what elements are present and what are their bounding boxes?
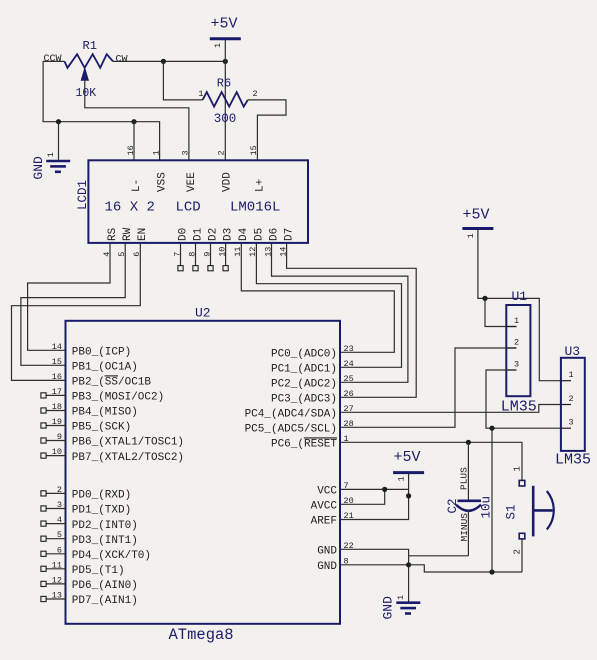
U2 pin VCC (7) bbox=[317, 481, 348, 498]
svg-text:PC3_(ADC3): PC3_(ADC3) bbox=[271, 394, 337, 406]
LCD1 top pin names bbox=[131, 172, 266, 192]
wire +5V to U1 pin1 bbox=[485, 298, 517, 326]
U2 pin PC6_(RESET (1) bbox=[271, 434, 349, 451]
svg-text:2: 2 bbox=[253, 89, 258, 99]
wire gnd right vertical bbox=[491, 428, 493, 572]
wire gnd to S1 bottom bbox=[409, 565, 522, 572]
svg-text:1: 1 bbox=[514, 316, 519, 326]
U2 pin PD0_(RXD) (2) bbox=[41, 485, 131, 502]
svg-text:PD7_(AIN1): PD7_(AIN1) bbox=[72, 595, 138, 607]
wire gnd to C2 minus bbox=[409, 555, 469, 557]
svg-text:U3: U3 bbox=[565, 344, 581, 359]
svg-text:PB2_(SS/OC1B: PB2_(SS/OC1B bbox=[72, 377, 152, 389]
wire EN to PB2 bbox=[12, 243, 141, 381]
svg-text:PB7_(XTAL2/TOSC2): PB7_(XTAL2/TOSC2) bbox=[72, 452, 184, 464]
svg-text:U2: U2 bbox=[195, 306, 211, 321]
svg-text:2: 2 bbox=[216, 150, 226, 155]
svg-text:PC1_(ADC1): PC1_(ADC1) bbox=[271, 364, 337, 376]
wire VCC to +5V bbox=[340, 488, 409, 490]
unconnected stub D2 bbox=[208, 243, 213, 271]
svg-text:LM35: LM35 bbox=[501, 399, 537, 416]
wire D5 to PC1 bbox=[256, 243, 401, 367]
wire AREF to +5V stem bbox=[340, 473, 409, 520]
svg-text:PC6_(RESET: PC6_(RESET bbox=[271, 439, 337, 451]
U2 pin PB2_(SS/OC1B (16) bbox=[52, 372, 152, 389]
svg-text:3: 3 bbox=[569, 418, 574, 428]
svg-text:PB3_(MOSI/OC2): PB3_(MOSI/OC2) bbox=[72, 392, 164, 404]
U2 pin PC2_(ADC2) (25) bbox=[271, 374, 354, 391]
potentiometer R1 bbox=[65, 39, 114, 100]
wire D4 to PC0 bbox=[241, 243, 394, 352]
U2 pin PC0_(ADC0) (23) bbox=[271, 344, 354, 361]
svg-text:PD0_(RXD): PD0_(RXD) bbox=[72, 490, 131, 502]
wire U1 pin3 gnd net bbox=[486, 370, 561, 428]
svg-text:EN: EN bbox=[137, 228, 149, 241]
svg-text:1: 1 bbox=[397, 476, 407, 481]
svg-text:AVCC: AVCC bbox=[311, 501, 338, 513]
svg-text:U1: U1 bbox=[512, 289, 528, 304]
svg-text:1: 1 bbox=[569, 370, 574, 380]
svg-text:1: 1 bbox=[466, 233, 476, 238]
U2 pin PB3_(MOSI/OC2) (17) bbox=[41, 387, 164, 404]
svg-text:D1: D1 bbox=[192, 227, 204, 241]
svg-text:R6: R6 bbox=[217, 76, 231, 90]
svg-text:S1: S1 bbox=[505, 504, 519, 519]
svg-text:LM35: LM35 bbox=[555, 452, 591, 469]
svg-text:R1: R1 bbox=[83, 39, 97, 53]
svg-text:PB5_(SCK): PB5_(SCK) bbox=[72, 422, 131, 434]
U3 box bbox=[555, 344, 591, 469]
junction dot CW/R6 bbox=[161, 59, 166, 64]
svg-text:16 X 2: 16 X 2 bbox=[105, 200, 155, 216]
svg-text:PD3_(INT1): PD3_(INT1) bbox=[72, 535, 138, 547]
U1 pin 1 bbox=[506, 316, 519, 327]
U2 pin GND (8) bbox=[317, 556, 348, 573]
svg-text:16: 16 bbox=[126, 145, 136, 155]
svg-text:24: 24 bbox=[344, 359, 354, 369]
svg-text:ATmega8: ATmega8 bbox=[169, 626, 234, 644]
svg-text:PD4_(XCK/T0): PD4_(XCK/T0) bbox=[72, 550, 151, 562]
svg-text:D5: D5 bbox=[253, 228, 265, 241]
junction dot GND branch bbox=[56, 119, 61, 124]
svg-text:1: 1 bbox=[198, 89, 203, 99]
U2 pin PD6_(AIN0) (12) bbox=[41, 575, 138, 592]
svg-text:1: 1 bbox=[46, 152, 56, 157]
wire GND stub bbox=[58, 122, 60, 160]
wire L- stub bbox=[133, 122, 135, 161]
U1 box bbox=[501, 289, 537, 416]
wire RS to PB0 bbox=[28, 243, 110, 350]
svg-text:VSS: VSS bbox=[157, 172, 169, 192]
unconnected stub D1 bbox=[193, 243, 198, 271]
svg-text:15: 15 bbox=[249, 145, 259, 155]
wire +5V right rail bbox=[478, 230, 561, 381]
svg-text:PD6_(AIN0): PD6_(AIN0) bbox=[72, 580, 138, 592]
junction dot L- branch bbox=[131, 119, 136, 124]
svg-text:25: 25 bbox=[344, 374, 354, 384]
wire R1 wiper to VEE bbox=[85, 81, 189, 161]
junction dot C2/reset bbox=[466, 440, 471, 445]
svg-text:PC0_(ADC0): PC0_(ADC0) bbox=[271, 349, 337, 361]
svg-text:2: 2 bbox=[513, 549, 523, 554]
LCD1 center text bbox=[105, 200, 281, 216]
junction dot CW/+5V stem bbox=[223, 59, 228, 64]
junction dot on +5V stem bbox=[406, 493, 411, 498]
LCD1 bottom pin names bbox=[107, 227, 296, 241]
svg-text:PC4_(ADC4/SDA): PC4_(ADC4/SDA) bbox=[245, 409, 337, 421]
U1 pin 2 bbox=[506, 338, 519, 349]
wire GND pin22 bbox=[340, 549, 409, 602]
svg-text:14: 14 bbox=[52, 342, 62, 352]
U3 pin 2 bbox=[561, 394, 574, 405]
wire GND pin8 bbox=[340, 564, 409, 566]
svg-text:+5V: +5V bbox=[463, 206, 490, 223]
svg-text:16: 16 bbox=[52, 372, 62, 382]
power +5V top bbox=[210, 16, 241, 49]
svg-text:GND: GND bbox=[31, 156, 46, 180]
svg-text:1: 1 bbox=[213, 43, 223, 48]
LCD1 top pin numbers bbox=[126, 145, 259, 155]
svg-text:D2: D2 bbox=[207, 228, 219, 241]
U1 pin 3 bbox=[506, 360, 519, 371]
U2 pin PC1_(ADC1) (24) bbox=[271, 359, 354, 376]
svg-text:L-: L- bbox=[131, 179, 143, 192]
svg-text:15: 15 bbox=[52, 357, 62, 367]
junction dot VCC/AVCC bbox=[382, 487, 387, 492]
svg-text:PC5_(ADC5/SCL): PC5_(ADC5/SCL) bbox=[245, 424, 337, 436]
junction dot gnd right bbox=[489, 426, 494, 431]
svg-text:D4: D4 bbox=[238, 227, 250, 241]
junction dot +5V right bbox=[482, 296, 487, 301]
U3 pin 3 bbox=[561, 418, 574, 429]
switch S1 pin1 terminal bbox=[513, 466, 525, 486]
svg-text:PD5_(T1): PD5_(T1) bbox=[72, 565, 125, 577]
wire PC4 to U3 pin2 bbox=[340, 405, 561, 413]
svg-text:+5V: +5V bbox=[394, 449, 421, 466]
wire PC6 reset net bbox=[340, 442, 522, 480]
U2 pin PC5_(ADC5/SCL) (28) bbox=[245, 419, 354, 436]
U2 pin PD2_(INT0) (4) bbox=[41, 515, 138, 532]
U2 pin PC4_(ADC4/SDA) (27) bbox=[245, 404, 354, 421]
ground GND bottom bbox=[381, 595, 421, 620]
svg-text:PB1_(OC1A): PB1_(OC1A) bbox=[72, 362, 138, 374]
wire AVCC join bbox=[340, 489, 385, 504]
svg-text:3: 3 bbox=[181, 150, 191, 155]
U2 pin AVCC (20) bbox=[311, 496, 354, 513]
unconnected stub D3 bbox=[223, 243, 228, 271]
ground GND top-left bbox=[31, 152, 70, 180]
U2 pin PD7_(AIN1) (13) bbox=[41, 591, 138, 608]
svg-text:PD1_(TXD): PD1_(TXD) bbox=[72, 505, 131, 517]
svg-text:26: 26 bbox=[344, 389, 354, 399]
wire R1 right lead CW to +5V bbox=[113, 60, 225, 62]
junction dot gnd bbox=[406, 562, 411, 567]
svg-text:VCC: VCC bbox=[317, 486, 337, 498]
U2 box bbox=[66, 306, 341, 644]
svg-text:1: 1 bbox=[151, 150, 161, 155]
wire D6 to PC2 bbox=[272, 243, 408, 382]
svg-text:D0: D0 bbox=[177, 228, 189, 241]
svg-text:CCW: CCW bbox=[44, 54, 62, 65]
svg-text:D3: D3 bbox=[223, 228, 235, 241]
wire D7 to PC3 bbox=[287, 243, 417, 397]
U2 pin PB1_(OC1A) (15) bbox=[52, 357, 138, 374]
svg-text:LCD1: LCD1 bbox=[76, 180, 90, 210]
svg-text:AREF: AREF bbox=[311, 516, 337, 528]
svg-text:23: 23 bbox=[344, 344, 354, 354]
label CW bbox=[116, 54, 128, 65]
svg-text:D6: D6 bbox=[268, 228, 280, 241]
svg-text:LM016L: LM016L bbox=[230, 200, 280, 216]
wire R1 left lead to down-left bbox=[43, 61, 160, 160]
svg-text:GND: GND bbox=[381, 596, 396, 620]
wire PC5 to U1 pin2 bbox=[340, 348, 517, 427]
svg-text:PLUS: PLUS bbox=[459, 467, 470, 490]
U2 pin PC3_(ADC3) (26) bbox=[271, 389, 354, 406]
svg-text:VEE: VEE bbox=[186, 172, 198, 192]
svg-text:D7: D7 bbox=[284, 228, 296, 241]
LCD1 bottom pin numbers bbox=[102, 247, 289, 257]
U2 pin PB0_(ICP) (14) bbox=[52, 342, 131, 359]
svg-text:GND: GND bbox=[317, 546, 337, 558]
svg-text:CW: CW bbox=[116, 54, 128, 65]
svg-text:3: 3 bbox=[514, 360, 519, 370]
junction dot bottom bbox=[489, 569, 494, 574]
wire S1 pin2 lead bbox=[521, 539, 523, 572]
U2 pin AREF (21) bbox=[311, 511, 354, 528]
svg-text:MINUS: MINUS bbox=[459, 513, 470, 542]
wire R6 branch bbox=[163, 61, 202, 100]
svg-text:RS: RS bbox=[107, 227, 119, 241]
U2 pin PD1_(TXD) (3) bbox=[41, 500, 131, 517]
svg-text:2: 2 bbox=[569, 394, 574, 404]
wire R6 to L+ bbox=[248, 100, 286, 160]
wire RW to PB1 bbox=[21, 243, 125, 365]
unconnected stub D0 bbox=[178, 243, 183, 271]
switch S1 pin2 terminal bbox=[513, 533, 525, 554]
svg-text:PB4_(MISO): PB4_(MISO) bbox=[72, 407, 138, 419]
svg-text:GND: GND bbox=[317, 561, 337, 573]
U2 pin PD3_(INT1) (5) bbox=[41, 530, 138, 547]
svg-text:PB6_(XTAL1/TOSC1): PB6_(XTAL1/TOSC1) bbox=[72, 437, 184, 449]
svg-text:L+: L+ bbox=[254, 179, 266, 192]
svg-text:VDD: VDD bbox=[222, 172, 234, 192]
svg-text:2: 2 bbox=[514, 338, 519, 348]
svg-text:LCD: LCD bbox=[176, 200, 201, 216]
capacitor C2 bbox=[446, 442, 494, 556]
U2 pin PD4_(XCK/T0) (6) bbox=[41, 545, 151, 562]
power +5V right bbox=[462, 206, 493, 238]
svg-text:PD2_(INT0): PD2_(INT0) bbox=[72, 520, 138, 532]
svg-text:RW: RW bbox=[122, 227, 134, 241]
power +5V mid bbox=[393, 449, 424, 482]
svg-text:1: 1 bbox=[396, 595, 406, 600]
U2 pin PD5_(T1) (11) bbox=[41, 560, 125, 577]
svg-text:300: 300 bbox=[214, 112, 237, 126]
LCD1 box bbox=[76, 160, 308, 243]
label CCW bbox=[44, 54, 62, 65]
switch S1 symbol bbox=[505, 486, 554, 537]
U2 pin PB4_(MISO) (18) bbox=[41, 402, 138, 419]
svg-text:+5V: +5V bbox=[211, 16, 238, 33]
U3 pin 1 bbox=[561, 370, 574, 381]
resistor R6 bbox=[198, 76, 257, 126]
U2 pin PB5_(SCK) (19) bbox=[41, 417, 131, 434]
wire +5V stem to VDD bbox=[224, 40, 226, 160]
svg-text:PC2_(ADC2): PC2_(ADC2) bbox=[271, 379, 337, 391]
svg-text:PB0_(ICP): PB0_(ICP) bbox=[72, 347, 131, 359]
U2 pin GND (22) bbox=[317, 541, 354, 558]
U2 pin PB7_(XTAL2/TOSC2) (10) bbox=[41, 447, 184, 464]
U2 pin PB6_(XTAL1/TOSC1) (9) bbox=[41, 432, 184, 449]
svg-text:C2: C2 bbox=[446, 498, 460, 513]
svg-text:10K: 10K bbox=[76, 87, 97, 100]
svg-text:1: 1 bbox=[513, 466, 523, 471]
